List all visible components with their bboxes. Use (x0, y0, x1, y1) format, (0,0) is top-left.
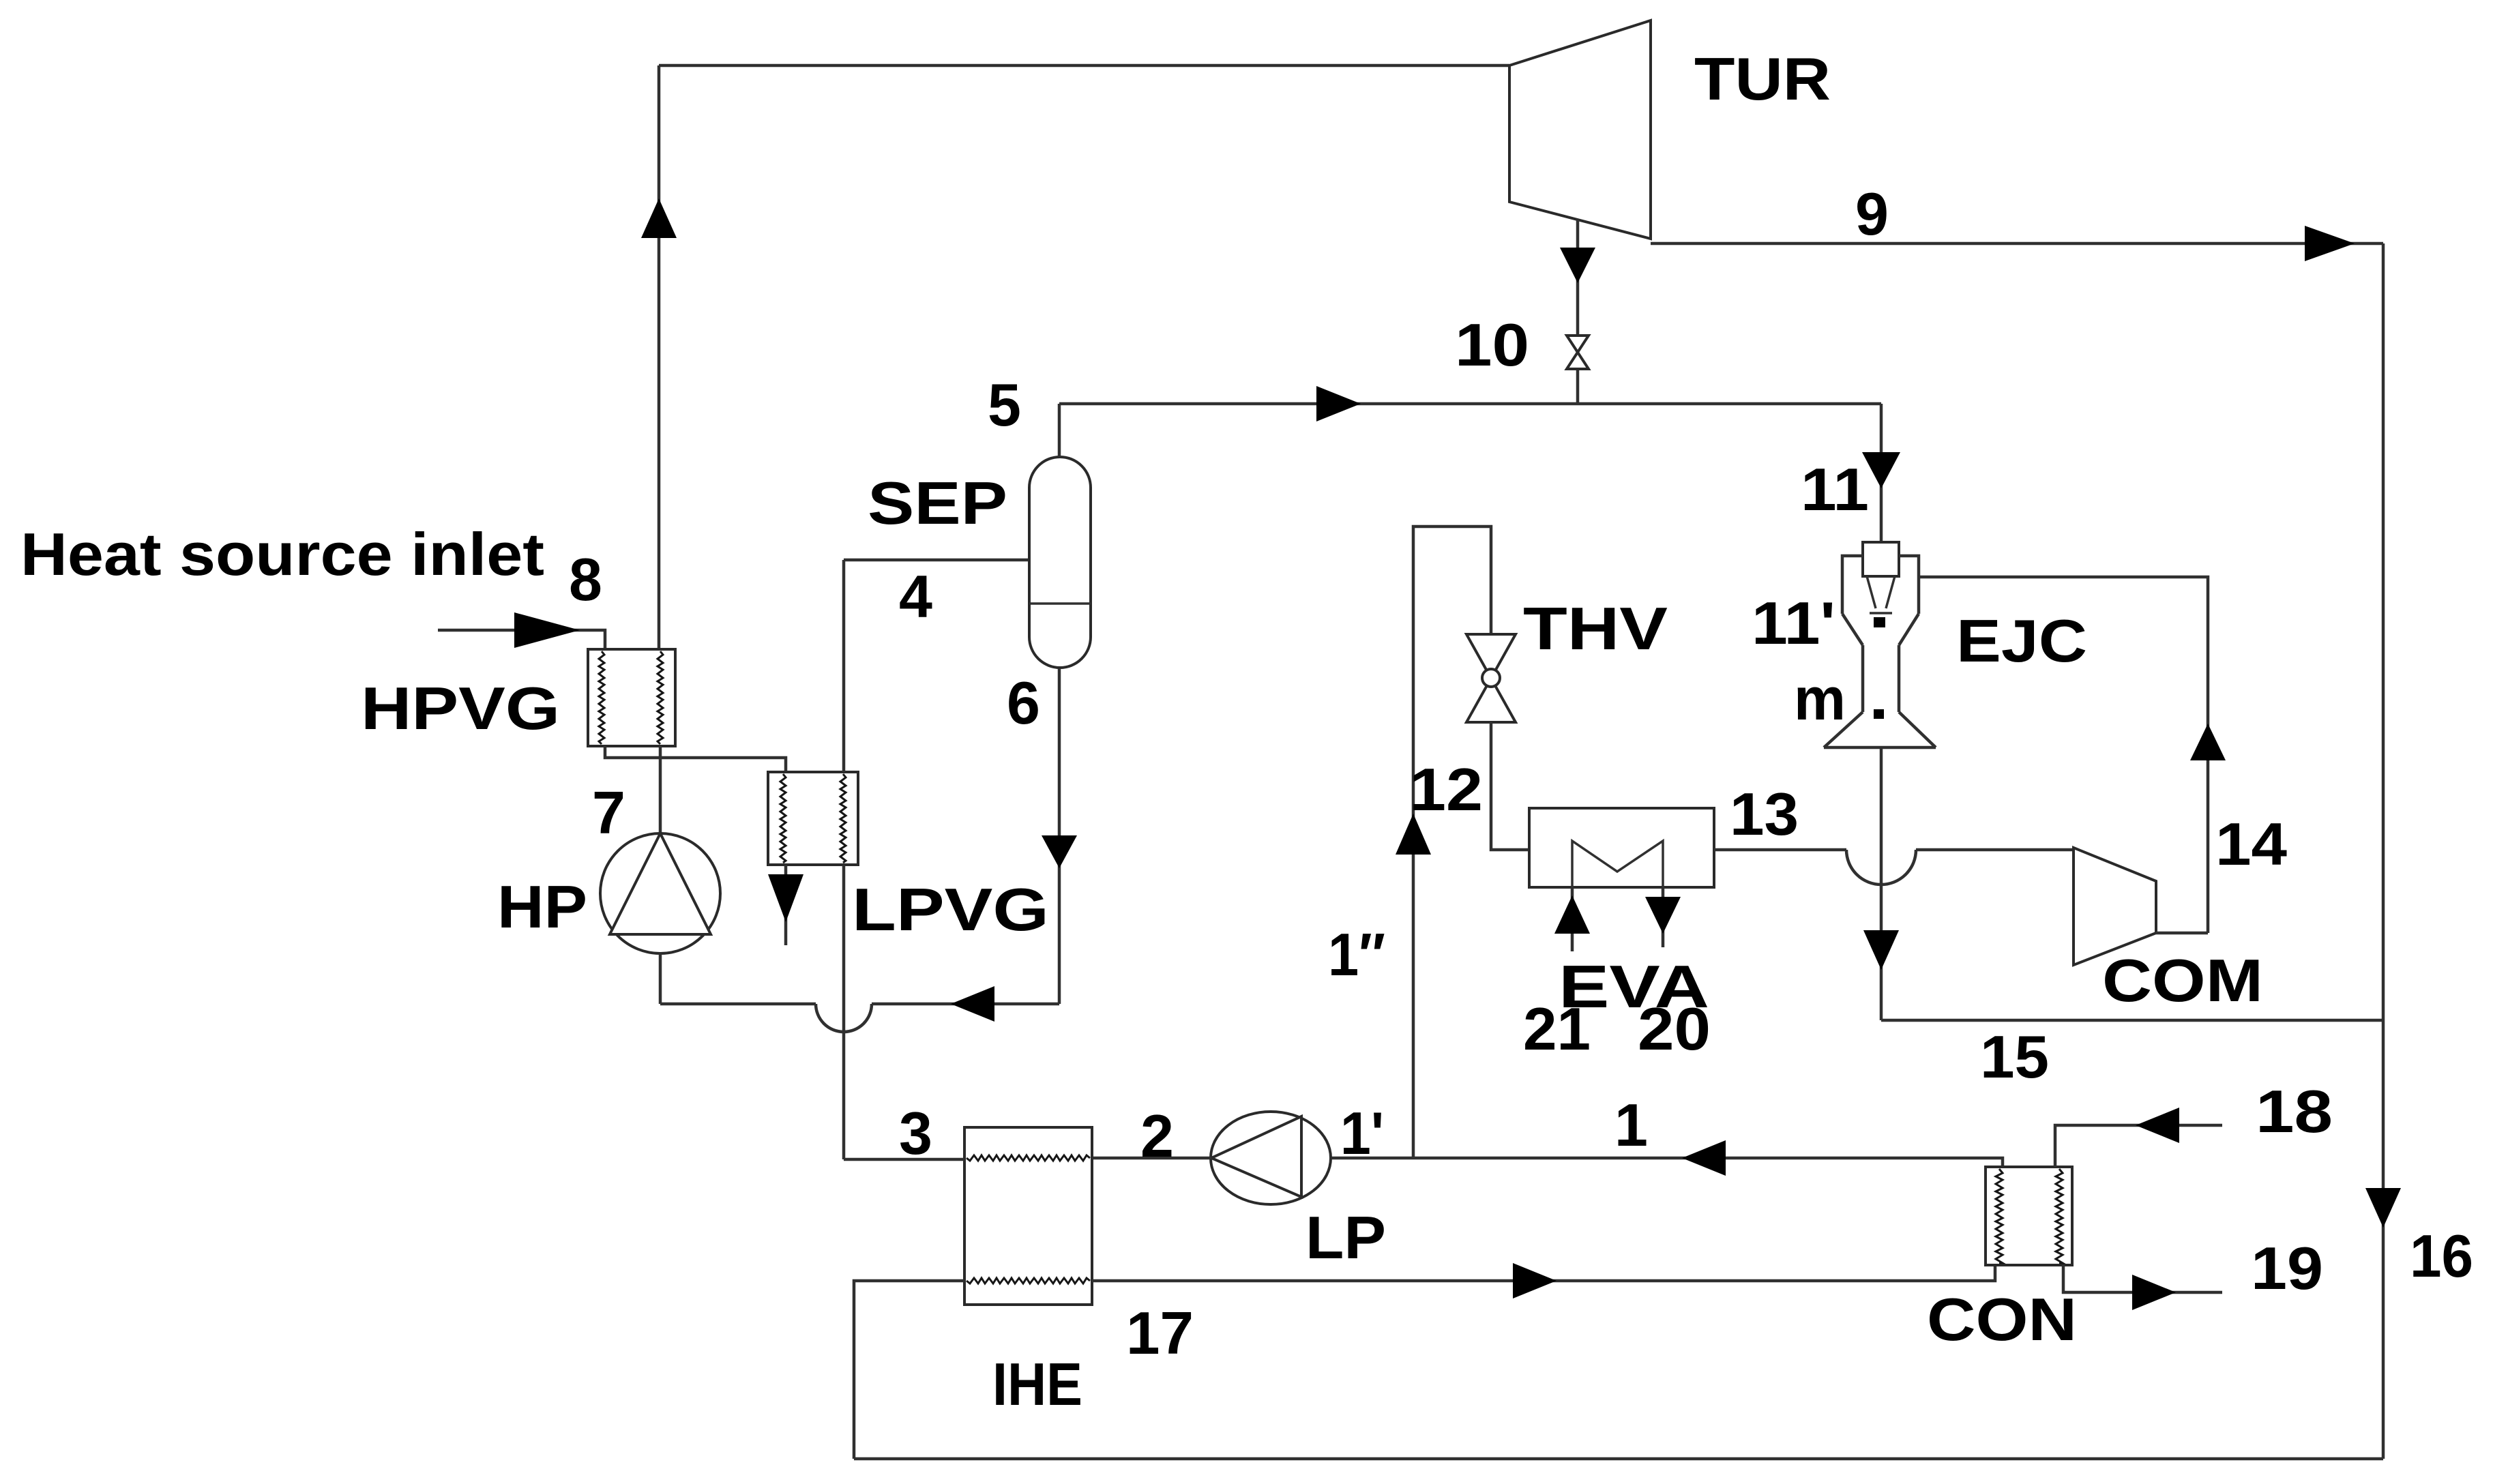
svg-text:Heat source inlet: Heat source inlet (20, 520, 544, 588)
svg-text:THV: THV (1523, 595, 1668, 662)
svg-text:SEP: SEP (868, 469, 1007, 537)
wire COM outlet (2156, 932, 2208, 935)
svg-text:HP: HP (497, 873, 587, 940)
svg-text:12: 12 (1409, 756, 1483, 823)
svg-text:EJC: EJC (1956, 607, 2087, 674)
arrow right on heat source inlet (514, 612, 580, 648)
svg-text:2: 2 (1140, 1102, 1174, 1170)
wire line 2 (IHE to LP pump) (1092, 1157, 1211, 1160)
wire heat source outlet below LPVG (784, 865, 788, 945)
svg-text:COM: COM (2102, 947, 2263, 1014)
wire line 5 riser (1058, 404, 1061, 457)
wire turbine inlet top (line 8 to TUR) (659, 64, 1509, 68)
wire line 7 (HPVG to HP pump) (659, 746, 662, 835)
wire line 8 vertical (HPVG to top corner) (658, 65, 661, 649)
arrow left on line 1 (1682, 1140, 1726, 1176)
arrow down on line 6 vertical (1042, 835, 1077, 868)
svg-text:14: 14 (2215, 810, 2287, 878)
svg-text:6: 6 (1007, 669, 1040, 737)
arrow down on line 11 (1862, 452, 1900, 488)
wire line 17 (IHE to CON) (1092, 1265, 1995, 1281)
pump HP circle (600, 833, 720, 953)
svg-text:1: 1 (1614, 1091, 1648, 1159)
HPVG right coil zigzag (658, 651, 663, 744)
svg-text:7: 7 (592, 779, 625, 846)
wire line 13 (EVA to COM) (1714, 848, 2074, 852)
ejector EJC throat (1863, 645, 1899, 712)
ejector EJC diffuser (1824, 712, 1936, 747)
crossover bridge on line 13 (1846, 850, 1916, 885)
crossover bridge on line 6 (816, 1004, 872, 1032)
valve 10 bowtie (1567, 336, 1589, 369)
svg-text:21: 21 (1523, 995, 1591, 1063)
wire heat source HPVG to LPVG (605, 746, 786, 772)
svg-text:11': 11' (1752, 589, 1835, 657)
pump LP ellipse (1211, 1112, 1331, 1204)
wire line 1 (CON to LP pump) (1331, 1158, 2003, 1167)
wire EVA stream 20 out (1662, 887, 1665, 947)
ejector EJC body top and sides (1842, 556, 1919, 614)
wire turbine exhaust to valve 10 (1576, 220, 1580, 404)
svg-text:8: 8 (569, 546, 602, 613)
heat exchanger HPVG box (588, 649, 675, 746)
IHE lower coil zigzag (967, 1278, 1090, 1283)
wire line 6 horizontal (SEP liquid to HP pump) (660, 1003, 1059, 1006)
arrow right on line 9 (2305, 226, 2355, 261)
svg-text:m: m (1794, 665, 1846, 732)
arrow down heat source outlet (768, 874, 803, 922)
svg-text:11: 11 (1801, 456, 1869, 523)
SEP liquid level line (1029, 602, 1091, 605)
arrow left on line 6 (951, 986, 994, 1022)
wire line 15 horizontal (1881, 1019, 2383, 1022)
arrow down EJC outlet (1863, 930, 1899, 970)
ejector EJC dot upper (1874, 617, 1885, 627)
ejector EJC nozzle rect (1863, 542, 1899, 576)
svg-text:18: 18 (2256, 1078, 2333, 1145)
ejector EJC dot lower (1874, 709, 1884, 719)
svg-text:10: 10 (1455, 311, 1529, 379)
svg-text:LPVG: LPVG (852, 876, 1049, 943)
arrow right on line 5 (1316, 386, 1361, 421)
wire THV to EVA (1491, 722, 1529, 850)
wire HP pump outlet down (659, 953, 662, 1004)
svg-text:TUR: TUR (1694, 45, 1831, 113)
wire bottom line 16 (854, 1457, 2383, 1461)
arrow up on line 8 (641, 198, 677, 238)
pump LP triangle (1211, 1116, 1301, 1197)
CON right coil zigzag (2056, 1169, 2063, 1263)
compressor COM body (2074, 848, 2156, 965)
arrow right on line 19 (2132, 1275, 2176, 1310)
pump HP triangle (610, 833, 711, 934)
arrow down turbine exhaust (1560, 248, 1595, 283)
svg-text:16: 16 (2410, 1222, 2473, 1290)
wire line 6 vertical from SEP (1058, 668, 1061, 1004)
svg-text:9: 9 (1855, 180, 1889, 248)
wire line 16 vertical right side (2382, 243, 2385, 1459)
heat exchanger LPVG box (768, 772, 858, 865)
svg-text:CON: CON (1927, 1286, 2077, 1353)
CON left coil zigzag (1996, 1169, 2003, 1263)
wire line 5-11 horizontal (1059, 402, 1881, 406)
arrow left on line 18 (2136, 1108, 2179, 1143)
arrow down on line 16 (2365, 1188, 2401, 1228)
svg-text:1': 1' (1340, 1099, 1384, 1167)
wire line 4 horizontal to SEP (844, 559, 1029, 562)
arrow right on line 17 (1513, 1263, 1557, 1298)
wire line 3 (to IHE) (844, 1158, 964, 1161)
HPVG left coil zigzag (599, 651, 604, 744)
heat exchanger IHE box (964, 1127, 1092, 1305)
valve THV bowtie (1466, 634, 1516, 722)
evaporator EVA box (1529, 808, 1714, 887)
svg-text:IHE: IHE (992, 1350, 1082, 1418)
IHE upper coil zigzag (967, 1155, 1090, 1161)
valve THV circle (1482, 669, 1500, 687)
wire IHE bottom left to bottom line (854, 1281, 964, 1459)
arrow up on line 1pp (1396, 814, 1431, 855)
wire line 18 (cooling in) (2055, 1125, 2222, 1167)
wire EJC outlet 15 down (1880, 747, 1883, 1020)
turbine TUR body (1509, 20, 1651, 239)
LPVG right coil zigzag (840, 774, 846, 863)
wire EJC suction line 14 top (1919, 577, 2208, 933)
svg-text:5: 5 (988, 371, 1021, 439)
EVA coil (1572, 841, 1663, 887)
ejector EJC internal nozzle (1867, 576, 1895, 613)
svg-text:LP: LP (1305, 1204, 1386, 1271)
wire line 11 down to EJC (1880, 404, 1883, 542)
wire EVA stream 21 in (1571, 887, 1574, 951)
svg-text:HPVG: HPVG (361, 674, 560, 742)
LPVG left coil zigzag (780, 774, 786, 863)
svg-text:3: 3 (899, 1099, 932, 1167)
wire line 9 (1651, 242, 2383, 246)
svg-text:20: 20 (1638, 995, 1711, 1063)
wire heat source inlet (438, 630, 605, 649)
ejector EJC converging section (1842, 614, 1919, 645)
wire line 3-4 vertical through LPVG (842, 560, 846, 1159)
arrow down stream 20 (1645, 897, 1681, 934)
arrow up on line 14 (2190, 724, 2226, 760)
arrow up stream 21 (1554, 895, 1590, 934)
wire line 1pp vertical and THV feed (1413, 526, 1491, 1158)
svg-text:19: 19 (2251, 1234, 2323, 1302)
svg-text:17: 17 (1126, 1299, 1194, 1367)
separator SEP vessel (1029, 457, 1091, 668)
svg-text:4: 4 (899, 563, 932, 630)
wire line 19 (cooling out) (2063, 1265, 2222, 1292)
svg-text:13: 13 (1730, 780, 1799, 848)
svg-text:15: 15 (1980, 1023, 2049, 1090)
svg-text:1″: 1″ (1328, 921, 1385, 988)
condenser CON box (1986, 1167, 2072, 1265)
